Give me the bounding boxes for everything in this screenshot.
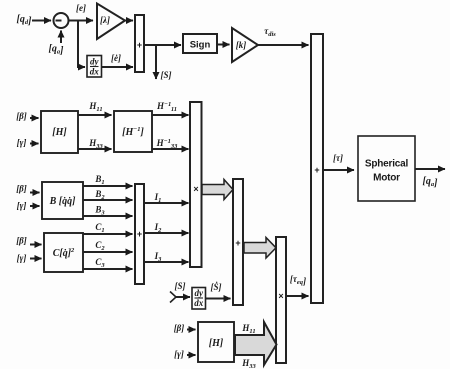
svg-text:[β]: [β] [16,236,27,246]
svg-text:[τeq]: [τeq] [290,274,306,286]
svg-text:dx: dx [194,298,204,308]
svg-text:[λ]: [λ] [100,15,110,25]
svg-text:×: × [193,184,198,194]
svg-text:C2: C2 [95,240,105,252]
svg-text:Sign: Sign [190,40,211,51]
svg-text:[β]: [β] [16,111,27,121]
svg-text:[γ]: [γ] [17,201,27,211]
svg-text:B1: B1 [94,174,104,186]
svg-text:[γ]: [γ] [17,253,27,263]
svg-text:[k]: [k] [236,40,247,50]
svg-text:×: × [278,291,283,301]
svg-text:τdis: τdis [264,26,276,38]
svg-text:[e]: [e] [76,3,86,13]
svg-text:+: + [235,238,240,248]
svg-text:Motor: Motor [373,173,400,184]
svg-text:+: + [137,229,142,239]
svg-text:[qa]: [qa] [423,176,439,189]
svg-text:[γ]: [γ] [17,138,27,148]
svg-text:C1: C1 [95,222,104,234]
svg-text:[qa]: [qa] [49,44,65,57]
svg-text:[H]: [H] [52,127,67,138]
svg-text:dx: dx [90,67,100,77]
svg-text:B3: B3 [94,205,105,217]
svg-text:H11: H11 [88,101,102,113]
svg-text:B [q̇q̇]: B [q̇q̇] [49,196,77,207]
svg-text:[Ṡ]: [Ṡ] [211,282,222,292]
svg-text:[S]: [S] [161,70,172,80]
svg-text:C3: C3 [95,257,105,269]
svg-text:[β]: [β] [16,184,27,194]
svg-text:+: + [314,165,319,175]
svg-text:H−111: H−111 [156,101,177,113]
svg-text:[ė]: [ė] [111,53,121,63]
svg-text:[β]: [β] [174,323,185,333]
svg-text:Spherical: Spherical [365,159,409,170]
svg-text:[γ]: [γ] [174,349,184,359]
svg-text:H11: H11 [241,323,255,335]
svg-text:H33: H33 [241,358,256,369]
svg-text:dy: dy [90,57,100,67]
svg-text:[H]: [H] [209,338,224,349]
svg-text:+: + [137,40,142,50]
svg-text:[τ]: [τ] [333,153,343,163]
svg-text:[qd]: [qd] [17,14,33,27]
svg-text:[S]: [S] [175,281,186,291]
svg-text:dy: dy [195,288,205,298]
